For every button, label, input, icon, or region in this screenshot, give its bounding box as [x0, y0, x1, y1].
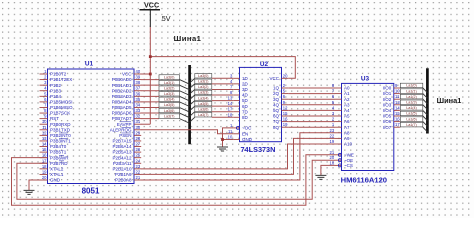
svg-text:VCC: VCC	[122, 72, 132, 77]
svg-text:P0B2AD2: P0B2AD2	[112, 88, 132, 93]
svg-text:18: 18	[228, 112, 233, 117]
svg-text:La3(5): La3(5)	[164, 103, 174, 107]
svg-text:11: 11	[395, 94, 400, 99]
svg-text:U2: U2	[260, 61, 269, 68]
svg-text:P2B4A12: P2B4A12	[112, 155, 132, 160]
svg-text:38: 38	[136, 80, 141, 85]
svg-text:GND: GND	[242, 137, 253, 142]
svg-text:La1(2): La1(2)	[406, 95, 416, 99]
svg-text:20: 20	[42, 175, 47, 180]
svg-text:XTAL2: XTAL2	[50, 166, 64, 171]
svg-text:7Q: 7Q	[273, 119, 280, 124]
svg-text:P0B0AD0: P0B0AD0	[112, 77, 132, 82]
svg-text:La3(7): La3(7)	[164, 114, 174, 118]
svg-text:~OC: ~OC	[242, 126, 252, 131]
svg-text:28: 28	[136, 136, 141, 141]
svg-text:VCC: VCC	[269, 76, 279, 81]
svg-text:XTAL1: XTAL1	[50, 172, 64, 177]
svg-text:P2B2A10: P2B2A10	[112, 166, 132, 171]
svg-text:La3(4): La3(4)	[164, 98, 174, 102]
svg-text:5V: 5V	[162, 14, 171, 23]
svg-text:P0B1AD1: P0B1AD1	[112, 83, 132, 88]
svg-text:A9: A9	[344, 136, 350, 141]
svg-text:GND: GND	[50, 178, 61, 183]
svg-text:La1(4): La1(4)	[406, 106, 416, 110]
svg-text:2Q: 2Q	[273, 91, 280, 96]
svg-text:2D: 2D	[242, 81, 249, 86]
svg-text:P1B4: P1B4	[50, 94, 62, 99]
svg-text:10: 10	[42, 119, 47, 124]
svg-text:La1(3): La1(3)	[406, 101, 416, 105]
svg-text:31: 31	[136, 119, 141, 124]
svg-text:3Q: 3Q	[273, 97, 280, 102]
svg-text:A2: A2	[344, 97, 350, 102]
svg-text:16: 16	[42, 153, 47, 158]
svg-text:U3: U3	[361, 76, 370, 83]
svg-text:10: 10	[395, 89, 400, 94]
svg-text:16: 16	[283, 117, 288, 122]
svg-text:La3(6): La3(6)	[198, 107, 208, 111]
svg-text:P1B7SCK: P1B7SCK	[50, 111, 70, 116]
svg-text:19: 19	[330, 139, 335, 144]
svg-text:Шина1: Шина1	[174, 34, 202, 43]
svg-text:37: 37	[136, 86, 141, 91]
svg-text:P2B1A9: P2B1A9	[115, 172, 132, 177]
svg-text:15: 15	[283, 111, 288, 116]
svg-text:5Q: 5Q	[273, 108, 280, 113]
svg-text:La1(5): La1(5)	[406, 112, 416, 116]
svg-text:14: 14	[42, 142, 47, 147]
svg-text:17: 17	[395, 122, 400, 127]
svg-text:18: 18	[42, 164, 47, 169]
svg-text:23: 23	[136, 164, 141, 169]
svg-text:12: 12	[42, 130, 47, 135]
svg-text:I/O4: I/O4	[383, 108, 392, 113]
svg-text:La3(4): La3(4)	[198, 96, 208, 100]
svg-text:P3B4T0: P3B4T0	[50, 144, 67, 149]
svg-text:P0B4AD4: P0B4AD4	[112, 99, 132, 104]
svg-text:14: 14	[228, 101, 233, 106]
svg-text:EN: EN	[242, 131, 248, 136]
svg-text:A5: A5	[344, 114, 350, 119]
svg-text:8051: 8051	[82, 186, 100, 195]
svg-text:P2B7A15: P2B7A15	[112, 139, 132, 144]
svg-text:La3(1): La3(1)	[164, 81, 174, 85]
svg-text:PSEN: PSEN	[119, 133, 131, 138]
svg-text:11: 11	[228, 129, 233, 134]
svg-text:6D: 6D	[242, 104, 249, 109]
svg-text:I/O0: I/O0	[383, 86, 392, 91]
svg-text:22: 22	[136, 169, 141, 174]
svg-text:16: 16	[395, 117, 400, 122]
svg-text:ALEPROG: ALEPROG	[110, 127, 132, 132]
svg-text:35: 35	[136, 97, 141, 102]
svg-text:1Q: 1Q	[273, 86, 280, 91]
svg-text:La3(0): La3(0)	[198, 74, 208, 78]
svg-text:27: 27	[136, 142, 141, 147]
svg-text:P2B3A11: P2B3A11	[113, 161, 132, 166]
svg-text:A1: A1	[344, 91, 350, 96]
svg-text:4Q: 4Q	[273, 102, 280, 107]
svg-text:34: 34	[136, 102, 141, 107]
svg-text:P0B7AD7: P0B7AD7	[112, 116, 132, 121]
svg-text:P0B3AD3: P0B3AD3	[112, 94, 132, 99]
svg-text:18: 18	[330, 160, 335, 165]
svg-text:19: 19	[42, 169, 47, 174]
svg-text:RST: RST	[50, 116, 59, 121]
svg-text:17: 17	[42, 158, 47, 163]
svg-text:P3B6WR: P3B6WR	[50, 155, 69, 160]
svg-text:P2B6A14: P2B6A14	[112, 144, 132, 149]
svg-text:8D: 8D	[242, 115, 249, 120]
svg-text:La1(1): La1(1)	[406, 89, 416, 93]
svg-text:8Q: 8Q	[273, 125, 280, 130]
svg-text:A3: A3	[344, 102, 350, 107]
svg-text:21: 21	[330, 150, 335, 155]
svg-text:11: 11	[42, 125, 47, 130]
svg-text:A10: A10	[344, 142, 353, 147]
svg-text:I/O7: I/O7	[383, 125, 392, 130]
svg-text:1D: 1D	[242, 76, 249, 81]
svg-text:La3(0): La3(0)	[164, 75, 174, 79]
svg-text:A7: A7	[344, 125, 350, 130]
svg-text:24: 24	[136, 158, 141, 163]
svg-text:P1B6MISO: P1B6MISO	[50, 105, 73, 110]
svg-text:La3(3): La3(3)	[164, 92, 174, 96]
svg-text:La3(2): La3(2)	[164, 86, 174, 90]
svg-text:10: 10	[228, 135, 233, 140]
svg-text:VCC: VCC	[144, 1, 159, 10]
svg-text:39: 39	[136, 75, 141, 80]
svg-text:P3B5T1: P3B5T1	[50, 150, 67, 155]
svg-text:~WE: ~WE	[344, 152, 354, 157]
svg-text:P0B6AD6: P0B6AD6	[112, 111, 132, 116]
svg-text:40: 40	[136, 69, 141, 74]
svg-text:P2B0A8: P2B0A8	[115, 178, 132, 183]
svg-text:La3(1): La3(1)	[198, 80, 208, 84]
svg-text:32: 32	[136, 114, 141, 119]
svg-text:P3B2INT0: P3B2INT0	[50, 133, 71, 138]
svg-text:La3(5): La3(5)	[198, 102, 208, 106]
svg-text:21: 21	[136, 175, 141, 180]
svg-text:I/O1: I/O1	[383, 91, 392, 96]
svg-text:La3(7): La3(7)	[198, 113, 208, 117]
svg-text:74LS373N: 74LS373N	[241, 145, 276, 154]
svg-text:15: 15	[42, 147, 47, 152]
svg-text:P3B1TXD: P3B1TXD	[50, 127, 71, 132]
svg-text:23: 23	[330, 128, 335, 133]
svg-text:I/O5: I/O5	[383, 114, 392, 119]
svg-text:A0: A0	[344, 86, 350, 91]
svg-text:HM6116A120: HM6116A120	[341, 176, 387, 185]
svg-text:P3B0RXD: P3B0RXD	[50, 122, 71, 127]
svg-text:22: 22	[330, 133, 335, 138]
svg-text:P0B5AD5: P0B5AD5	[112, 105, 132, 110]
svg-text:I/O6: I/O6	[383, 119, 392, 124]
svg-text:26: 26	[136, 147, 141, 152]
svg-text:U1: U1	[85, 61, 94, 68]
svg-text:A8: A8	[344, 130, 350, 135]
svg-text:P1B3: P1B3	[50, 88, 62, 93]
svg-text:5D: 5D	[242, 98, 249, 103]
svg-text:13: 13	[228, 96, 233, 101]
svg-text:La1(7): La1(7)	[406, 123, 416, 127]
svg-text:20: 20	[283, 73, 288, 78]
svg-text:La3(3): La3(3)	[198, 91, 208, 95]
svg-text:13: 13	[42, 136, 47, 141]
svg-text:29: 29	[136, 130, 141, 135]
svg-text:13: 13	[395, 100, 400, 105]
svg-text:17: 17	[228, 107, 233, 112]
svg-text:A6: A6	[344, 119, 350, 124]
svg-text:6Q: 6Q	[273, 114, 280, 119]
svg-text:19: 19	[283, 122, 288, 127]
svg-text:P3B3INT1: P3B3INT1	[50, 139, 71, 144]
svg-text:Шина1: Шина1	[437, 96, 462, 105]
svg-text:I/O2: I/O2	[383, 97, 392, 102]
svg-text:La1(0): La1(0)	[406, 84, 416, 88]
svg-text:P1B1T2EX: P1B1T2EX	[50, 77, 72, 82]
svg-text:I/O3: I/O3	[383, 102, 392, 107]
svg-text:12: 12	[283, 105, 288, 110]
svg-text:P2B5A13: P2B5A13	[112, 150, 132, 155]
svg-text:P3B7RD: P3B7RD	[50, 161, 68, 166]
svg-text:EAVPP: EAVPP	[117, 122, 132, 127]
svg-text:~CS: ~CS	[344, 163, 353, 168]
svg-text:7D: 7D	[242, 109, 249, 114]
svg-text:P1B2: P1B2	[50, 83, 62, 88]
svg-text:30: 30	[136, 125, 141, 130]
svg-text:33: 33	[136, 108, 141, 113]
svg-text:3D: 3D	[242, 87, 249, 92]
svg-text:A4: A4	[344, 108, 350, 113]
svg-text:4D: 4D	[242, 93, 249, 98]
svg-text:P1B0T2: P1B0T2	[50, 72, 67, 77]
svg-text:La3(2): La3(2)	[198, 85, 208, 89]
svg-text:La3(6): La3(6)	[164, 109, 174, 113]
svg-text:14: 14	[395, 105, 400, 110]
svg-text:15: 15	[395, 111, 400, 116]
svg-text:La1(6): La1(6)	[406, 117, 416, 121]
svg-text:25: 25	[136, 153, 141, 158]
svg-text:P1B5MOSI: P1B5MOSI	[50, 99, 73, 104]
svg-text:36: 36	[136, 91, 141, 96]
